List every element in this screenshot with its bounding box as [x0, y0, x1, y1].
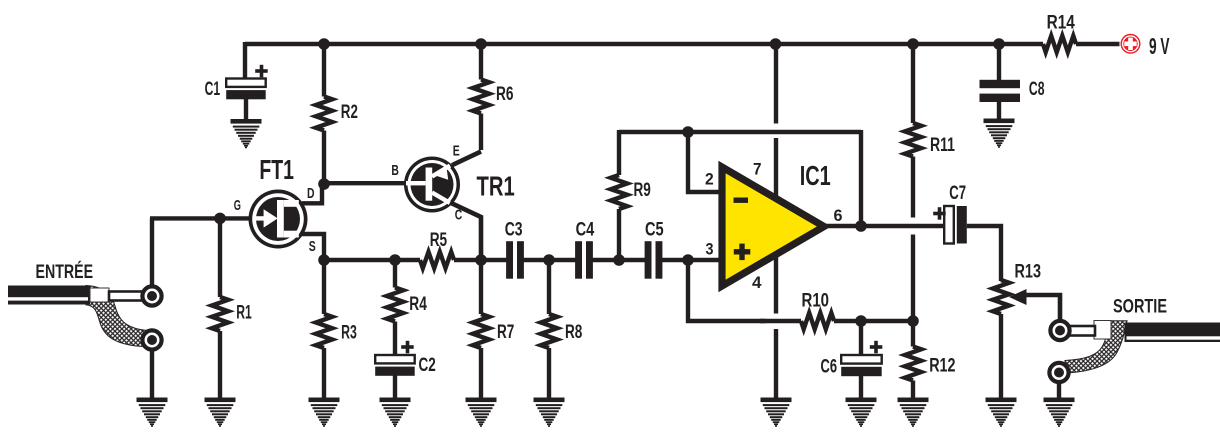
input cable braid [86, 286, 147, 347]
svg-text:TR1: TR1 [477, 171, 515, 202]
wire: IC1 output [822, 224, 944, 228]
wire: feedback down to output [859, 130, 863, 226]
wire: C1 bottom lead [244, 98, 248, 120]
transistor FT1 (JFET) [249, 190, 308, 249]
svg-text:C2: C2 [419, 354, 436, 376]
svg-text:C7: C7 [949, 182, 966, 204]
resistor R5 [420, 252, 454, 268]
node: rail junction C8 [993, 38, 1005, 50]
input centre conductor [109, 292, 143, 301]
battery terminal +9V [1121, 34, 1141, 54]
capacitor C8 [997, 44, 1001, 80]
wire: gate line [150, 216, 250, 220]
wire: C2 to ground [393, 374, 397, 399]
svg-text:C8: C8 [1029, 78, 1045, 100]
wire: FT1 drain lead [302, 184, 322, 203]
node: output junction [855, 220, 867, 232]
svg-text:R5: R5 [430, 229, 448, 251]
node: gate/R1 junction [214, 213, 226, 225]
svg-text:SORTIE: SORTIE [1113, 297, 1167, 318]
svg-text:C3: C3 [505, 218, 523, 240]
polarity + (C6) [870, 345, 883, 349]
svg-text:R2: R2 [341, 101, 358, 123]
svg-text:R14: R14 [1047, 11, 1075, 33]
svg-text:C6: C6 [821, 356, 838, 378]
ground (C1) [231, 119, 262, 148]
wire: TR1 emitter lead [452, 152, 481, 166]
output ground lug [1049, 363, 1068, 382]
svg-text:R10: R10 [802, 290, 830, 312]
node: rail junction R2 [318, 38, 330, 50]
wire: R5 to C3 [454, 258, 507, 262]
ground (R1) [205, 398, 236, 427]
wire: base line [324, 181, 406, 185]
wire: C1 top lead [243, 42, 247, 79]
node: collector/R7 junction [475, 254, 487, 266]
wire: wiper to output lug [1025, 295, 1060, 321]
svg-text:C1: C1 [205, 78, 221, 100]
wire: TR1 collector lead [450, 203, 481, 263]
input cable jacket [8, 286, 90, 305]
svg-text:2: 2 [705, 170, 714, 189]
output cable jacket [1125, 323, 1220, 343]
wire: C3 to C4 [523, 258, 576, 262]
transistor TR1 (PNP) [404, 157, 460, 213]
capacitor C1 [226, 79, 266, 87]
ground (input shield) [137, 398, 168, 427]
svg-text:R3: R3 [341, 322, 357, 344]
wire: feedback top [619, 130, 861, 135]
resistor R12 [911, 321, 915, 347]
resistor R14 [1043, 36, 1076, 52]
ground (output shield) [1044, 398, 1075, 427]
node: R4 junction [389, 254, 401, 266]
svg-text:C4: C4 [576, 218, 595, 240]
wire: source line to R5 [324, 258, 420, 262]
ground (R12) [898, 398, 929, 427]
resistor R11 [911, 44, 915, 123]
polarity + (C1) [255, 69, 268, 73]
svg-text:B: B [391, 162, 399, 179]
output hot lug [1050, 321, 1069, 340]
node: rail junction R11 [907, 38, 919, 50]
wire: input shield to ground [150, 350, 154, 399]
node: C4/C5/R9 junction [613, 254, 625, 266]
ground (R8) [534, 398, 565, 427]
node: pin3 junction [682, 254, 694, 266]
wire: FT1 source lead [302, 234, 324, 262]
node: source/R3 junction [318, 254, 330, 266]
ground (IC1 pin 4) [761, 398, 792, 427]
svg-text:ENTRÉE: ENTRÉE [36, 260, 94, 283]
ground (R3) [309, 398, 340, 427]
svg-text:D: D [307, 185, 315, 202]
resistor R8 [547, 260, 551, 314]
output centre conductor [1069, 326, 1095, 336]
node: C6 junction [855, 315, 867, 327]
polarity + (C7) [933, 212, 946, 216]
node: rail junction R6 [475, 38, 487, 50]
node: R11/R12 junction [907, 315, 919, 327]
svg-text:IC1: IC1 [800, 160, 831, 191]
svg-text:4: 4 [752, 273, 762, 292]
resistor R9 [617, 209, 621, 260]
op-amp IC1 [722, 167, 824, 286]
wire: +9V power rail [245, 42, 1043, 46]
polarity + (C2) [401, 345, 414, 349]
svg-text:R1: R1 [236, 301, 252, 323]
capacitor C2 [375, 355, 415, 363]
svg-text:G: G [234, 197, 241, 214]
resistor R3 [322, 260, 326, 314]
wire: R10 lead [760, 319, 801, 323]
potentiometer R13 [993, 280, 1009, 314]
ground (C2) [380, 398, 411, 427]
wire: C4 to C5 [592, 258, 645, 262]
wire: rail after R14 [1076, 42, 1120, 46]
capacitor C7 [944, 206, 954, 244]
node: feedback/pin2 junction [682, 126, 694, 138]
resistor R4 [393, 260, 397, 288]
resistor R7 [479, 260, 483, 314]
wire: C5 to pin3 [662, 258, 723, 262]
resistor R1 [218, 218, 222, 297]
resistor R2 [322, 44, 326, 97]
input hot lug [142, 286, 161, 305]
ground (C8) [984, 119, 1015, 148]
svg-text:7: 7 [753, 159, 762, 178]
svg-text:R6: R6 [496, 83, 514, 105]
resistor R6 [479, 44, 483, 80]
svg-text:R8: R8 [565, 321, 582, 343]
wire: C6 to ground [859, 375, 863, 399]
capacitor C3 [506, 241, 513, 279]
svg-text:R11: R11 [930, 134, 955, 156]
output centre conductor sleeve [1094, 321, 1111, 340]
svg-text:E: E [453, 142, 460, 159]
wire: IC1 pin 7 supply [774, 44, 778, 124]
svg-text:6: 6 [834, 206, 843, 225]
node: rail junction pin7 [770, 38, 782, 50]
ground (R7) [466, 398, 497, 427]
node: C3/C4/R8 junction [543, 254, 555, 266]
wire: C7 to R13 [967, 226, 1001, 281]
svg-text:R12: R12 [929, 355, 955, 377]
svg-text:C5: C5 [645, 218, 664, 240]
input ground lug [142, 330, 161, 349]
svg-text:3: 3 [706, 240, 714, 259]
wire: pin 2 [688, 132, 722, 192]
svg-text:R7: R7 [497, 321, 514, 343]
capacitor C5 [645, 241, 652, 279]
wire: IC1 pin 4 [774, 256, 778, 314]
capacitor C6 [859, 321, 863, 356]
svg-text:S: S [309, 238, 316, 255]
input centre conductor sleeve [90, 288, 109, 302]
svg-text:9 V: 9 V [1149, 33, 1170, 59]
output cable braid [1065, 321, 1127, 373]
svg-text:R9: R9 [634, 179, 651, 201]
resistor R10 [801, 313, 834, 329]
svg-text:R13: R13 [1015, 261, 1042, 283]
ground (R13) [986, 398, 1017, 427]
wire: R10 to divider [834, 319, 913, 323]
wiper arrow R13 [1009, 289, 1027, 305]
node: drain/R2/base junction [318, 178, 330, 190]
ground (C6) [846, 398, 877, 427]
wire: input lug to gate [150, 218, 154, 287]
svg-text:FT1: FT1 [259, 154, 294, 185]
svg-text:R4: R4 [409, 293, 427, 315]
wire: pin3 down to R10 [688, 260, 766, 321]
capacitor C4 [575, 241, 582, 279]
wire: output shield to ground [1057, 382, 1061, 399]
